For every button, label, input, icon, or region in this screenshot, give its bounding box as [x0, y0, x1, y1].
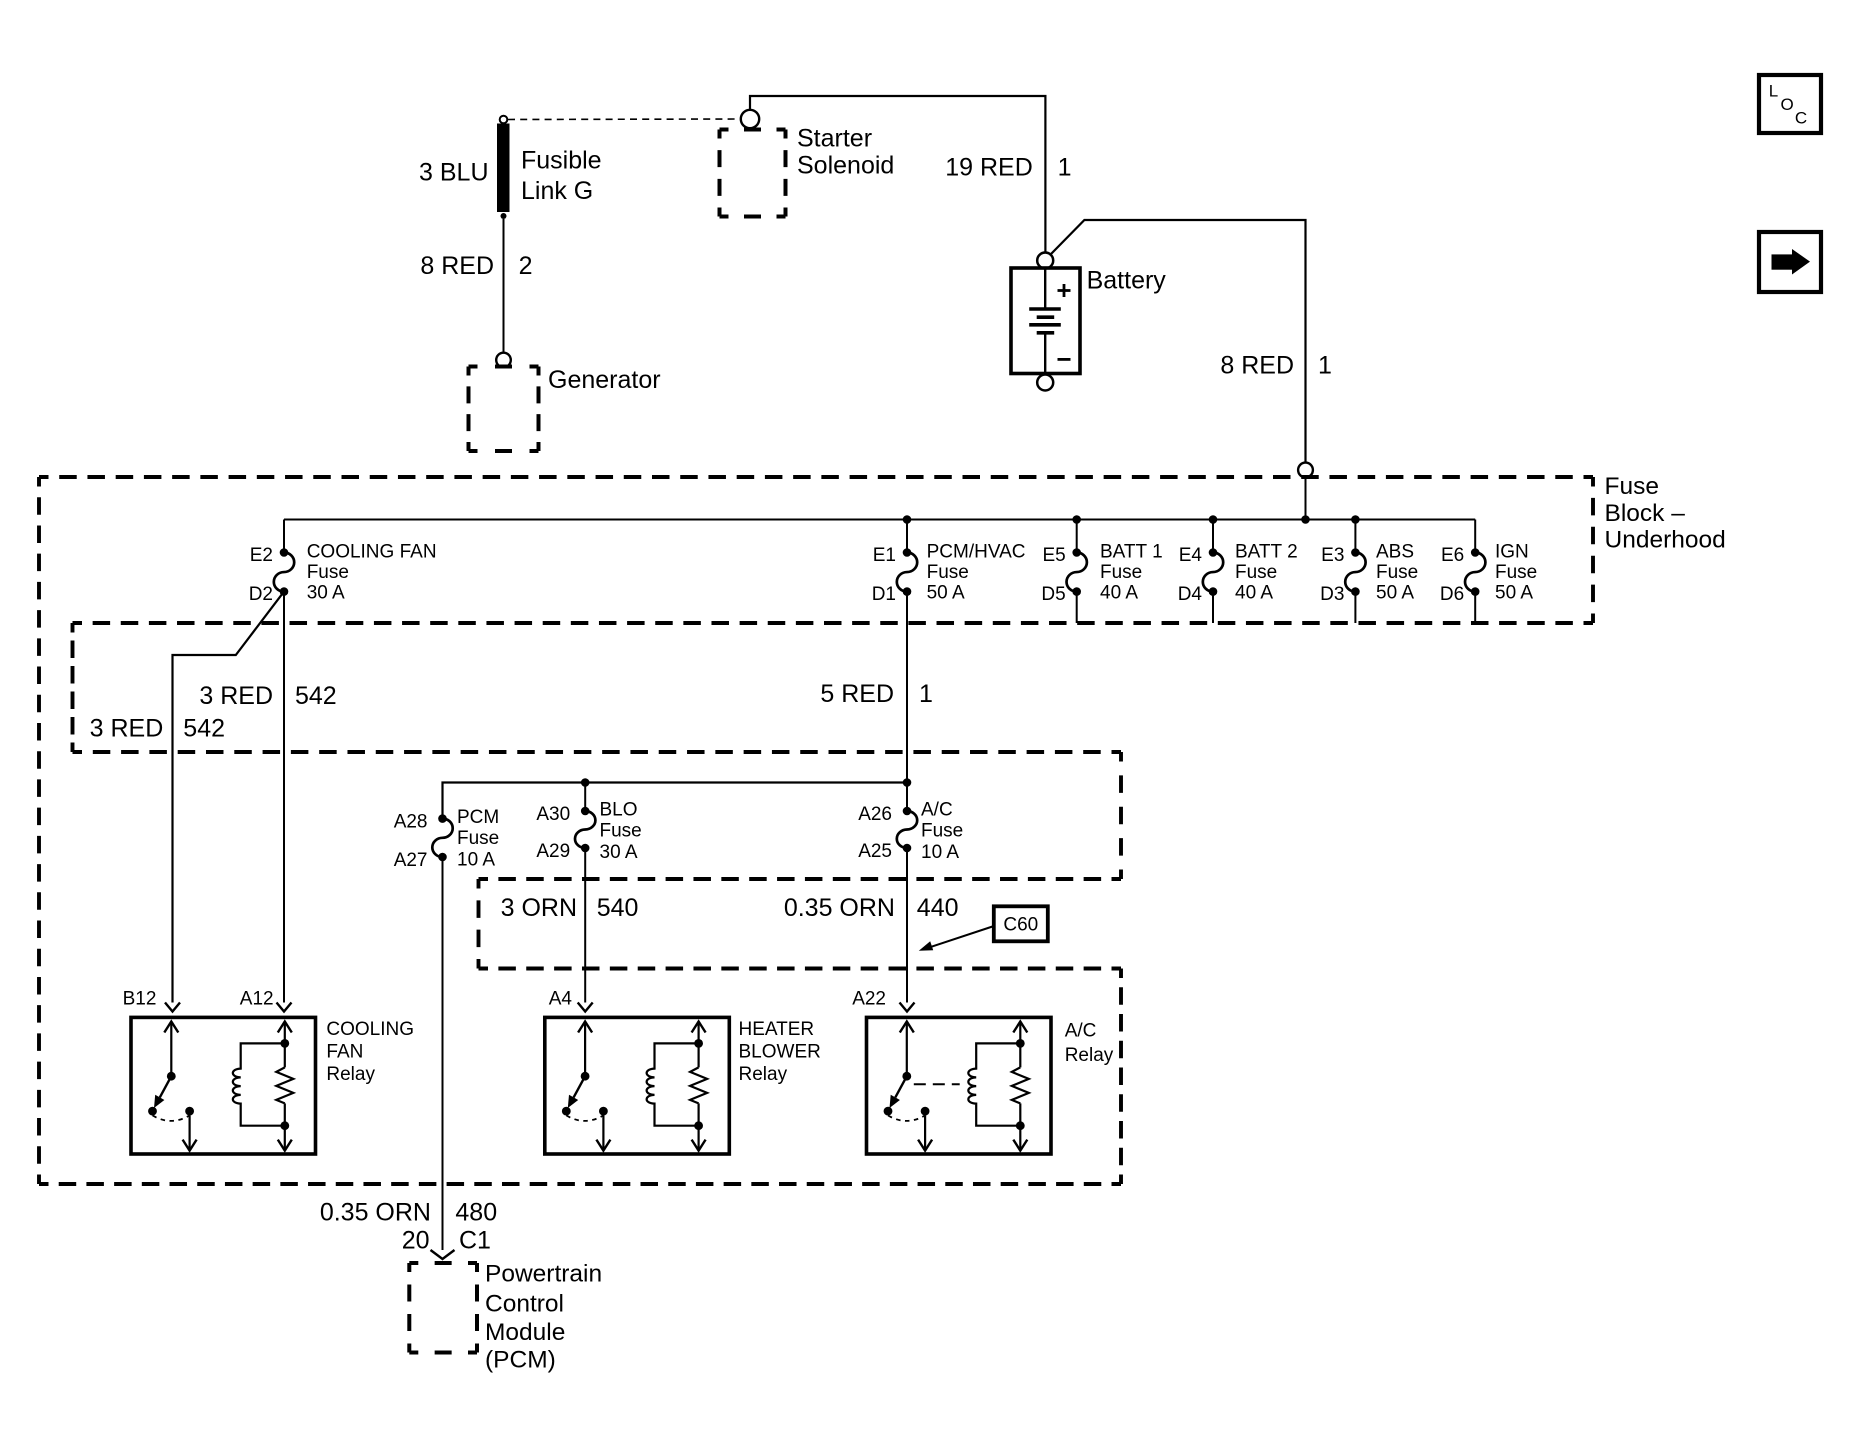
svg-text:Solenoid: Solenoid: [797, 152, 894, 180]
svg-text:Fuse: Fuse: [457, 828, 499, 849]
svg-text:D2: D2: [249, 584, 273, 605]
relay resistor: [276, 1022, 293, 1151]
label A/C Fuse 10 A: [921, 800, 963, 864]
label PCM/HVAC Fuse 50 A: [927, 541, 1026, 603]
svg-text:Fuse: Fuse: [307, 562, 349, 583]
svg-text:FAN: FAN: [326, 1042, 363, 1063]
relay box: [867, 1017, 1052, 1154]
label 19 RED 1: [945, 154, 1071, 182]
label Powertrain Control Module (PCM): [485, 1261, 602, 1374]
wire 8 RED 1 (battery to fuse block): [1051, 220, 1306, 463]
connector callout C60: [919, 906, 1048, 951]
svg-text:3 RED: 3 RED: [90, 715, 164, 743]
battery: [1011, 268, 1080, 374]
relay switch: [884, 1022, 933, 1151]
svg-text:8 RED: 8 RED: [1220, 352, 1294, 380]
svg-text:D4: D4: [1178, 584, 1203, 605]
svg-text:Powertrain: Powertrain: [485, 1261, 602, 1288]
wire battery feed bus: [284, 519, 1475, 521]
wire 8 RED 2 (fusible link to generator): [503, 219, 505, 353]
label 3 RED 542 lower: [90, 715, 225, 743]
label PCM Fuse 10 A: [457, 807, 499, 871]
svg-text:PCM/HVAC: PCM/HVAC: [927, 541, 1026, 562]
junction dot A/C feed: [903, 778, 912, 787]
svg-text:C1: C1: [459, 1227, 491, 1255]
svg-text:O: O: [1781, 95, 1794, 114]
svg-text:540: 540: [597, 894, 639, 922]
svg-text:1: 1: [1318, 352, 1332, 380]
svg-text:E2: E2: [250, 545, 273, 566]
svg-text:Generator: Generator: [548, 366, 661, 394]
svg-text:Fuse: Fuse: [927, 562, 969, 583]
fuse A28/A27 PCM 10 A: [432, 814, 452, 861]
svg-text:A26: A26: [858, 804, 892, 825]
svg-text:PCM: PCM: [457, 807, 499, 828]
junction dot BLO: [581, 778, 590, 787]
svg-text:E5: E5: [1042, 545, 1065, 566]
svg-text:COOLING FAN: COOLING FAN: [307, 541, 437, 562]
label COOLING FAN Relay: [326, 1019, 414, 1085]
fuse block feed terminal: [1298, 463, 1313, 478]
svg-text:E6: E6: [1441, 545, 1464, 566]
label 8 RED 1: [1220, 352, 1332, 380]
svg-text:A4: A4: [549, 989, 573, 1010]
svg-text:(PCM): (PCM): [485, 1347, 556, 1374]
relay resistor: [690, 1022, 707, 1151]
relay coil: [233, 1043, 285, 1125]
svg-text:10 A: 10 A: [921, 842, 959, 863]
svg-text:Block –: Block –: [1605, 500, 1686, 527]
label HEATER BLOWER Relay: [739, 1019, 821, 1085]
relay resistor: [1012, 1022, 1029, 1151]
starter solenoid terminal: [741, 110, 759, 128]
svg-text:Control: Control: [485, 1291, 564, 1318]
cooling fan relay: [131, 1017, 316, 1154]
powertrain control module: [409, 1261, 477, 1265]
svg-text:Relay: Relay: [739, 1064, 788, 1085]
label 5 RED 1: [820, 680, 933, 708]
label 8 RED 2: [420, 252, 532, 280]
label A/C Relay: [1065, 1021, 1114, 1067]
generator: [469, 365, 539, 369]
fuse block underhood dashed outline: [39, 477, 1593, 1184]
fuse E2/D2 COOLING FAN 30 A: [274, 520, 294, 624]
wire 0.35 ORN 480 (A27 to PCM): [442, 861, 444, 1250]
svg-text:B12: B12: [123, 989, 157, 1010]
relay box: [131, 1017, 316, 1154]
svg-text:BLO: BLO: [600, 800, 638, 821]
svg-text:C: C: [1795, 109, 1807, 128]
svg-text:E4: E4: [1179, 545, 1203, 566]
svg-text:Fuse: Fuse: [921, 821, 963, 842]
wire 0.35 ORN 440 (A25 to A/C relay A22): [906, 852, 908, 1003]
svg-text:40 A: 40 A: [1235, 583, 1273, 604]
wire 3 RED 542 to cooling fan relay B12: [173, 592, 285, 1003]
svg-text:0.35 ORN: 0.35 ORN: [320, 1199, 431, 1227]
fuse A30/A29 BLO 30 A: [575, 783, 595, 853]
svg-text:IGN: IGN: [1495, 541, 1529, 562]
svg-text:40 A: 40 A: [1100, 583, 1138, 604]
svg-text:480: 480: [455, 1199, 497, 1227]
svg-text:D3: D3: [1320, 584, 1344, 605]
connector B12: [165, 1003, 180, 1012]
svg-text:L: L: [1769, 82, 1778, 101]
svg-text:50 A: 50 A: [1376, 583, 1414, 604]
svg-text:Starter: Starter: [797, 125, 872, 153]
label BLO Fuse 30 A: [600, 800, 642, 864]
wire A12 entry: [283, 852, 285, 1003]
svg-text:Fuse: Fuse: [1605, 473, 1659, 500]
heater blower relay: [545, 1017, 730, 1154]
inner fuse bus: [443, 783, 908, 819]
label Fuse Block - Underhood: [1605, 473, 1726, 554]
fuse A26/A25 A/C 10 A: [897, 783, 917, 853]
svg-text:ABS: ABS: [1376, 541, 1414, 562]
svg-text:Battery: Battery: [1087, 267, 1167, 295]
relay coil: [968, 1043, 1020, 1125]
starter solenoid: [720, 128, 786, 132]
connector A12: [277, 1003, 292, 1012]
label IGN Fuse 50 A: [1495, 541, 1537, 603]
svg-text:BLOWER: BLOWER: [739, 1042, 821, 1063]
fuse E1/D1 PCM/HVAC 50 A: [897, 520, 917, 624]
LOC icon: [1759, 75, 1821, 133]
svg-text:1: 1: [1058, 154, 1072, 182]
svg-text:19 RED: 19 RED: [945, 154, 1033, 182]
svg-text:3 RED: 3 RED: [199, 682, 273, 710]
label Starter Solenoid: [797, 125, 894, 180]
svg-text:0.35 ORN: 0.35 ORN: [784, 894, 895, 922]
fusible link G: [497, 116, 510, 219]
battery B+ terminal: [1037, 253, 1053, 269]
svg-text:3 BLU: 3 BLU: [419, 159, 488, 187]
svg-text:Relay: Relay: [326, 1064, 375, 1085]
wire 3 ORN 540 (A29 to heater blower relay A4): [584, 852, 586, 1003]
svg-text:Fuse: Fuse: [600, 821, 642, 842]
svg-text:D1: D1: [872, 584, 896, 605]
fuse E4/D4 BATT 2 40 A: [1203, 520, 1223, 624]
svg-text:10 A: 10 A: [457, 850, 495, 871]
svg-text:D6: D6: [1440, 584, 1464, 605]
connector A4: [578, 1003, 593, 1012]
svg-text:20: 20: [402, 1227, 430, 1255]
next page arrow icon: [1759, 232, 1821, 292]
svg-text:A30: A30: [536, 804, 570, 825]
relay actuation dashed link: [914, 1083, 960, 1085]
svg-text:Fuse: Fuse: [1376, 562, 1418, 583]
svg-text:A/C: A/C: [1065, 1021, 1097, 1042]
wire 5 RED 1 (D1 to inner fuse bus): [906, 595, 908, 783]
fuse E6/D6 IGN 50 A: [1465, 520, 1485, 624]
label BATT 1 Fuse 40 A: [1100, 541, 1163, 603]
svg-text:5 RED: 5 RED: [820, 680, 894, 708]
svg-text:C60: C60: [1003, 915, 1038, 936]
label 3 RED 542 upper: [199, 682, 336, 710]
label ABS Fuse 50 A: [1376, 541, 1418, 603]
svg-text:Relay: Relay: [1065, 1045, 1114, 1066]
A/C relay: [867, 1017, 1052, 1154]
svg-text:2: 2: [519, 252, 533, 280]
relay switch: [148, 1022, 197, 1151]
svg-text:30 A: 30 A: [600, 842, 638, 863]
svg-text:A/C: A/C: [921, 800, 953, 821]
relay box: [545, 1017, 730, 1154]
fuse E5/D5 BATT 1 40 A: [1067, 520, 1087, 624]
wire terminal to bus: [1305, 478, 1307, 520]
svg-text:Fuse: Fuse: [1495, 562, 1537, 583]
label 0.35 ORN 480: [320, 1199, 497, 1227]
svg-text:8 RED: 8 RED: [420, 252, 494, 280]
svg-text:COOLING: COOLING: [326, 1019, 414, 1040]
svg-text:Fusible: Fusible: [521, 147, 602, 175]
svg-text:50 A: 50 A: [1495, 583, 1533, 604]
battery B- terminal: [1037, 375, 1053, 391]
svg-text:542: 542: [295, 682, 337, 710]
svg-text:A22: A22: [852, 989, 886, 1010]
svg-text:440: 440: [917, 894, 959, 922]
wire 3 RED 542 to cooling fan relay A12: [283, 595, 285, 1003]
svg-text:50 A: 50 A: [927, 583, 965, 604]
svg-text:Fuse: Fuse: [1100, 562, 1142, 583]
svg-text:Fuse: Fuse: [1235, 562, 1277, 583]
battery + sign: [1058, 284, 1071, 297]
svg-text:HEATER: HEATER: [739, 1019, 815, 1040]
svg-text:E1: E1: [873, 545, 896, 566]
label BATT 2 Fuse 40 A: [1235, 541, 1298, 603]
svg-text:BATT 2: BATT 2: [1235, 541, 1298, 562]
generator terminal: [496, 353, 511, 368]
connector A22: [900, 1003, 915, 1012]
svg-text:30 A: 30 A: [307, 583, 345, 604]
svg-text:3 ORN: 3 ORN: [501, 894, 577, 922]
fuse E3/D3 ABS 50 A: [1345, 520, 1365, 624]
svg-text:BATT 1: BATT 1: [1100, 541, 1163, 562]
svg-text:A25: A25: [858, 841, 892, 862]
svg-text:A12: A12: [240, 989, 274, 1010]
label Fusible Link G: [521, 147, 602, 206]
battery - sign: [1058, 358, 1071, 361]
connector C1 pin 20: [431, 1250, 455, 1259]
svg-text:Underhood: Underhood: [1605, 527, 1726, 554]
svg-text:D5: D5: [1041, 584, 1065, 605]
relay coil: [647, 1043, 699, 1125]
svg-text:A27: A27: [394, 850, 428, 871]
dashed wire fusible link to starter solenoid: [508, 118, 739, 121]
relay switch: [562, 1022, 611, 1151]
label 0.35 ORN 440: [784, 894, 959, 922]
svg-text:Link G: Link G: [521, 177, 593, 205]
svg-text:542: 542: [183, 715, 225, 743]
svg-text:E3: E3: [1321, 545, 1344, 566]
svg-text:Module: Module: [485, 1319, 565, 1346]
svg-text:1: 1: [919, 680, 933, 708]
junction dots on bus: [903, 515, 1360, 524]
label COOLING FAN Fuse 30 A: [307, 541, 437, 603]
label 3 ORN 540: [501, 894, 639, 922]
wire 19 RED 1 (solenoid to battery +): [750, 96, 1045, 252]
svg-text:A28: A28: [394, 812, 428, 833]
svg-text:A29: A29: [536, 841, 570, 862]
label 20 C1: [402, 1227, 491, 1255]
